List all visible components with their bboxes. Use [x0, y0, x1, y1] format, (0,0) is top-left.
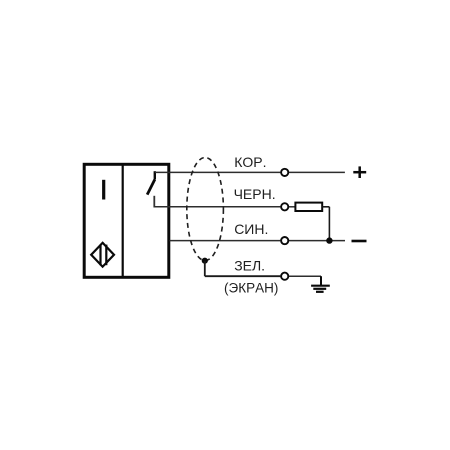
switch contact Q [147, 171, 155, 207]
svg-text:(ЭКРАН): (ЭКРАН) [224, 280, 278, 295]
shield junction dot on ellipse [202, 258, 208, 264]
sensor internal divider [122, 164, 124, 277]
inductive sensor diamond [91, 243, 114, 267]
resistor R [295, 203, 322, 211]
terminal circle ZEL [281, 273, 288, 280]
wire ZEL / shield [205, 261, 281, 277]
svg-text:ЧЕРН.: ЧЕРН. [234, 186, 276, 202]
terminal circle KOR [281, 169, 288, 176]
svg-text:КОР.: КОР. [234, 154, 266, 170]
wire from resistor to junction [322, 207, 329, 241]
svg-text:СИН.: СИН. [234, 221, 268, 237]
wire SIN horizontal [170, 240, 346, 242]
ground symbol [311, 276, 330, 292]
cable sheath ellipse [187, 158, 224, 261]
terminal circle SIN [281, 237, 288, 244]
terminal circle CHERN [281, 203, 288, 210]
plus terminal [353, 166, 366, 178]
wire KOR horizontal [155, 171, 345, 173]
junction dot on SIN wire [326, 237, 332, 243]
sensor body outline [84, 164, 169, 277]
minus terminal [352, 240, 367, 243]
coil mark I [102, 180, 105, 200]
svg-text:ЗЕЛ.: ЗЕЛ. [234, 258, 265, 274]
wire CHERN horizontal [154, 206, 295, 208]
